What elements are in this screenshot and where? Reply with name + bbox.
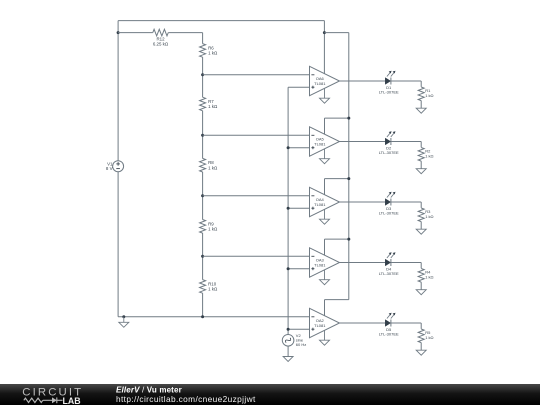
node V+ stub junction OA4 bbox=[347, 177, 350, 180]
wire OA3 output bbox=[340, 262, 386, 264]
label R2 value bbox=[425, 154, 433, 159]
wire supply branch bbox=[324, 32, 348, 34]
label OA4 bbox=[316, 197, 325, 202]
svg-text:TL081: TL081 bbox=[314, 202, 326, 207]
node ladder bottom junction bbox=[201, 315, 204, 318]
label D3 bbox=[386, 206, 392, 211]
label D1 part bbox=[379, 90, 399, 95]
label 6.25 kΩ bbox=[153, 42, 169, 47]
wire bus to op-amp OA3 non-inverting input bbox=[288, 268, 309, 270]
label D1 bbox=[386, 85, 392, 90]
label R7 bbox=[208, 99, 214, 104]
node V+ stub junction OA5 bbox=[347, 117, 350, 120]
svg-text:TL081: TL081 bbox=[314, 263, 326, 268]
wire R1 to ground bbox=[420, 101, 422, 109]
wire V+ rail bbox=[348, 33, 350, 300]
op-amp OA2 bbox=[310, 308, 340, 337]
node ladder tap 1 bbox=[201, 73, 204, 76]
wire tap to op-amp OA4 inverting input bbox=[203, 195, 310, 197]
wire top supply bbox=[118, 20, 324, 22]
resistor R1 bbox=[418, 87, 424, 101]
op-amp OA4 bbox=[310, 187, 340, 216]
wire R12 right lead bbox=[168, 32, 202, 34]
label R1 value bbox=[425, 93, 433, 98]
label R10 bbox=[208, 281, 217, 286]
svg-text:1 kΩ: 1 kΩ bbox=[208, 51, 218, 56]
footer bar bbox=[0, 384, 540, 405]
node bus junction OA5 bbox=[287, 146, 290, 149]
LED D4 bbox=[385, 252, 395, 266]
node bus junction OA2 bbox=[287, 328, 290, 331]
svg-text:http://circuitlab.com/cneue2uz: http://circuitlab.com/cneue2uzpjjwt bbox=[116, 394, 256, 404]
wire bus to op-amp OA5 non-inverting input bbox=[288, 147, 309, 149]
label R2 bbox=[425, 149, 431, 154]
wire OA6 output bbox=[340, 80, 386, 82]
wire tap to op-amp OA5 inverting input bbox=[203, 134, 310, 136]
label OA6 bbox=[316, 76, 325, 81]
wire V+ stub OA2 bbox=[325, 300, 349, 316]
label TL081 OA3 bbox=[314, 263, 326, 268]
svg-text:1 kΩ: 1 kΩ bbox=[425, 275, 433, 280]
node ladder tap 2 bbox=[201, 134, 204, 137]
resistor R12 bbox=[153, 29, 168, 36]
ground R3 bbox=[416, 229, 426, 234]
logo CIRCUIT LAB bbox=[22, 387, 83, 406]
wire V+ drop to OA6 bbox=[323, 21, 325, 74]
wire left rail lower bbox=[117, 172, 119, 317]
label OA2 bbox=[316, 318, 325, 323]
label 8 V bbox=[106, 166, 113, 171]
label R6 bbox=[208, 45, 214, 50]
wire tap to op-amp OA6 inverting input bbox=[203, 74, 310, 76]
wire tap to op-amp OA3 inverting input bbox=[203, 255, 310, 257]
resistor R2 bbox=[418, 148, 424, 162]
label OA3 bbox=[316, 258, 325, 263]
wire OA5 output bbox=[340, 141, 386, 143]
label R8 bbox=[208, 160, 214, 165]
label R9 value bbox=[208, 227, 218, 232]
wire D5 to R5 bbox=[391, 323, 421, 329]
wire R4 to ground bbox=[420, 282, 422, 290]
label R12 bbox=[156, 37, 165, 42]
svg-text:LTL-307EE: LTL-307EE bbox=[379, 211, 399, 216]
op-amp OA3 bbox=[310, 248, 340, 277]
wire OA2 output bbox=[340, 322, 386, 324]
resistor R9 bbox=[199, 220, 207, 234]
resistor R8 bbox=[199, 158, 207, 172]
label D2 bbox=[386, 146, 392, 151]
label TL081 OA2 bbox=[314, 323, 326, 328]
node junction left rail / R12 bbox=[117, 31, 120, 34]
label D2 part bbox=[379, 150, 399, 155]
node ladder tap 4 bbox=[201, 255, 204, 258]
wire D3 to R3 bbox=[391, 202, 421, 208]
svg-text:1 kΩ: 1 kΩ bbox=[208, 287, 218, 292]
node V+ stub junction OA3 bbox=[347, 238, 350, 241]
label R4 value bbox=[425, 275, 433, 280]
LED D5 bbox=[385, 313, 395, 327]
label D4 part bbox=[379, 271, 399, 276]
wire D4 to R4 bbox=[391, 263, 421, 269]
label R7 value bbox=[208, 104, 218, 109]
label R5 value bbox=[425, 335, 433, 340]
svg-text:1 kΩ: 1 kΩ bbox=[425, 335, 433, 340]
wire bus to op-amp OA4 non-inverting input bbox=[288, 207, 309, 209]
LED D2 bbox=[385, 131, 395, 145]
label R3 bbox=[425, 209, 431, 214]
ground R2 bbox=[416, 169, 426, 174]
wire bus to op-amp OA6 non-inverting input bbox=[288, 86, 309, 88]
wire signal bus bbox=[287, 87, 289, 335]
svg-text:1 kΩ: 1 kΩ bbox=[425, 214, 433, 219]
svg-text:1 kΩ: 1 kΩ bbox=[208, 165, 218, 170]
svg-text:TL081: TL081 bbox=[314, 323, 326, 328]
ground op-amp OA2 bbox=[320, 330, 330, 345]
label D5 bbox=[386, 327, 392, 332]
node bus junction OA4 bbox=[287, 207, 290, 210]
ground op-amp OA5 bbox=[320, 149, 330, 164]
label V1 bbox=[107, 162, 113, 167]
svg-text:1 kΩ: 1 kΩ bbox=[425, 154, 433, 159]
label R9 bbox=[208, 221, 214, 226]
node ladder tap 3 bbox=[201, 194, 204, 197]
label TL081 OA4 bbox=[314, 202, 326, 207]
LED D3 bbox=[385, 192, 395, 206]
label V2 freq bbox=[296, 342, 306, 347]
ground R5 bbox=[416, 350, 426, 355]
svg-text:TL081: TL081 bbox=[314, 81, 326, 86]
svg-text:LTL-307EE: LTL-307EE bbox=[379, 90, 399, 95]
wire ladder chain bbox=[202, 33, 204, 317]
svg-text:TL081: TL081 bbox=[314, 142, 326, 147]
svg-text:1 kΩ: 1 kΩ bbox=[208, 104, 218, 109]
wire V+ stub OA5 bbox=[325, 118, 349, 134]
ground R4 bbox=[416, 290, 426, 295]
wire V+ stub OA3 bbox=[325, 239, 349, 255]
svg-text:1 kΩ: 1 kΩ bbox=[425, 93, 433, 98]
resistor R6 bbox=[199, 44, 207, 58]
label R1 bbox=[425, 88, 431, 93]
svg-text:LTL-307EE: LTL-307EE bbox=[379, 332, 399, 337]
wire D1 to R1 bbox=[391, 81, 421, 87]
wire V+ stub OA4 bbox=[325, 179, 349, 195]
wire bus to op-amp OA2 non-inverting input bbox=[288, 328, 309, 330]
svg-text:8 V: 8 V bbox=[106, 166, 113, 171]
label D3 part bbox=[379, 211, 399, 216]
wire D2 to R2 bbox=[391, 142, 421, 148]
node supply branch junction bbox=[323, 31, 326, 34]
ground main bbox=[119, 317, 129, 328]
label D5 part bbox=[379, 332, 399, 337]
wire left rail upper bbox=[117, 21, 119, 161]
label R5 bbox=[425, 330, 431, 335]
resistor R7 bbox=[199, 97, 207, 111]
label R8 value bbox=[208, 165, 218, 170]
resistor R4 bbox=[418, 269, 424, 283]
ground V2 bbox=[283, 357, 293, 362]
wire V2 to ground bbox=[287, 346, 289, 357]
label TL081 OA5 bbox=[314, 142, 326, 147]
wire R3 to ground bbox=[420, 222, 422, 230]
label D4 bbox=[386, 267, 392, 272]
label OA5 bbox=[316, 137, 325, 142]
ground op-amp OA6 bbox=[320, 88, 330, 103]
title text bbox=[116, 386, 182, 395]
op-amp OA6 bbox=[310, 66, 340, 95]
ground op-amp OA3 bbox=[320, 270, 330, 285]
svg-text:1 kΩ: 1 kΩ bbox=[208, 227, 218, 232]
label TL081 OA6 bbox=[314, 81, 326, 86]
wire R12 left lead bbox=[118, 32, 153, 34]
label R10 value bbox=[208, 287, 218, 292]
resistor R3 bbox=[418, 208, 424, 222]
wire R5 to ground bbox=[420, 343, 422, 351]
label R3 value bbox=[425, 214, 433, 219]
label R6 value bbox=[208, 51, 218, 56]
label V2 bbox=[296, 333, 302, 338]
voltage source V1 bbox=[113, 161, 124, 172]
node bus junction OA3 bbox=[287, 267, 290, 270]
wire bottom ground bbox=[118, 316, 309, 318]
url text bbox=[116, 394, 256, 404]
wire OA4 output bbox=[340, 201, 386, 203]
svg-text:LTL-307EE: LTL-307EE bbox=[379, 271, 399, 276]
voltage source V2 bbox=[282, 335, 294, 347]
op-amp OA5 bbox=[310, 127, 340, 156]
node bottom ground junction bbox=[122, 315, 125, 318]
LED D1 bbox=[385, 71, 395, 85]
ground R1 bbox=[416, 108, 426, 113]
svg-text:LAB: LAB bbox=[63, 396, 81, 405]
svg-text:6.25 kΩ: 6.25 kΩ bbox=[153, 42, 169, 47]
svg-text:60 Hz: 60 Hz bbox=[296, 342, 306, 347]
ground op-amp OA4 bbox=[320, 209, 330, 224]
resistor R10 bbox=[199, 280, 207, 294]
svg-text:LTL-307EE: LTL-307EE bbox=[379, 150, 399, 155]
resistor R5 bbox=[418, 329, 424, 343]
label V2 sine bbox=[296, 338, 304, 343]
wire R2 to ground bbox=[420, 161, 422, 169]
label R4 bbox=[425, 270, 431, 275]
